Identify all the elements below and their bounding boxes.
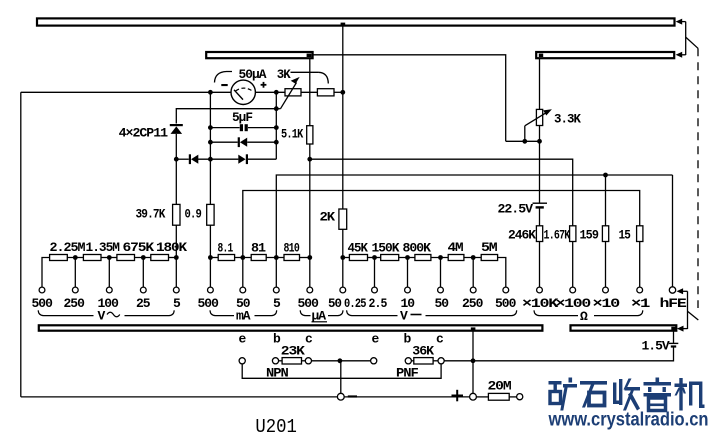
shaft link bottom diagonal: [688, 311, 699, 320]
brace uA: [300, 310, 343, 315]
svg-text:PNF: PNF: [396, 366, 419, 381]
wire: diode branch E left: [176, 158, 189, 160]
wire: diode column x=176: [175, 134, 177, 205]
diode D2 of 4x2CP11 (on 142 wire, cathode left): [238, 137, 248, 147]
terminal 50mA: [240, 287, 246, 293]
svg-text:mA: mA: [236, 309, 251, 324]
terminal 500V: [503, 287, 509, 293]
terminal x10K: [537, 287, 543, 293]
terminal 500V~: [39, 287, 45, 293]
glyph yin: [644, 378, 672, 411]
wire: 159 to x10 terminal: [605, 242, 607, 288]
glyph shou: [613, 379, 640, 411]
node V- row 1: [340, 255, 345, 260]
svg-text:b: b: [273, 332, 281, 347]
terminal x100: [570, 287, 576, 293]
node V~ row 3: [141, 255, 146, 260]
resistor 180K: [151, 255, 169, 261]
wire: V~ 5 terminal drop: [175, 258, 177, 288]
wire: capacitor branch: [210, 127, 239, 129]
wire: meter left column x=210: [209, 92, 211, 204]
node W2 to 159: [603, 173, 608, 178]
wire: 0.9 resistor to mA row: [209, 225, 211, 257]
wire: x=276 column top: [275, 92, 277, 159]
node wiper tail: [274, 106, 279, 111]
node E mid: [208, 157, 213, 162]
node center line / series resistor: [340, 90, 345, 95]
wire: 39.7K to V~ row: [175, 225, 177, 257]
terminal 50V: [438, 287, 444, 293]
node transistor common: [338, 358, 343, 363]
node 3.3K wiper: [522, 139, 527, 144]
svg-text:Ω: Ω: [580, 309, 588, 324]
node mA row 1: [208, 255, 213, 260]
brace V-: [347, 310, 517, 315]
resistor 1.35M: [83, 255, 101, 261]
wire: W1 from 5.1K bottom to 1.67K: [310, 159, 573, 226]
wire: mA terminal drops: [242, 258, 244, 288]
wire: bar S3 tick down to 3.3K top: [539, 59, 541, 110]
wire: meter right terminal to 3K pot: [255, 91, 285, 93]
wire: PNF b stub: [411, 360, 413, 362]
svg-text:15: 15: [619, 228, 632, 243]
wire: NPN e to PNF c bottom link: [242, 364, 441, 378]
capacitor 5uF: [240, 124, 248, 131]
svg-text:159: 159: [580, 228, 600, 243]
svg-text:5µF: 5µF: [232, 110, 253, 125]
node 3.3K bottom: [537, 139, 542, 144]
resistor 39.7K: [173, 204, 180, 225]
wire: W1 node down to mA row: [309, 159, 311, 257]
node meter left: [208, 90, 213, 95]
V- dash: [411, 314, 422, 316]
wire: V~ terminal drops: [74, 258, 76, 288]
wire: V- row to 0.25/50uA terminal: [342, 258, 344, 288]
terminal 2.5V: [372, 287, 378, 293]
svg-text:2.25M: 2.25M: [50, 240, 86, 255]
wire: W3 from mA row 50 to 15 resistor: [243, 191, 640, 258]
wire: 246K to x10K terminal: [539, 242, 541, 288]
wire: bar S1 tick down to main wire node: [342, 26, 344, 93]
node V- row 2: [372, 255, 377, 260]
svg-text:50µA: 50µA: [239, 67, 267, 82]
battery 1.5V: [669, 343, 678, 347]
resistor 810: [284, 255, 300, 261]
node 5.1K bottom: [307, 157, 312, 162]
svg-text:22.5V: 22.5V: [498, 202, 534, 217]
svg-text:500: 500: [32, 296, 54, 311]
shaft link top diagonal: [686, 37, 698, 48]
arrow into bar S1: [676, 19, 686, 55]
svg-text:b: b: [404, 332, 412, 347]
switch wafer bar S3 (upper right bar): [536, 52, 674, 58]
svg-text:0.25: 0.25: [344, 296, 367, 311]
resistor 800K: [415, 255, 431, 261]
socket c NPN: [305, 358, 311, 364]
potentiometer 3.3K (rheostat with arrow): [525, 109, 552, 126]
terminal 10V: [405, 287, 411, 293]
wire: meter line A left segment: [21, 91, 231, 93]
wire: NPN b stub: [279, 360, 283, 362]
svg-text:5: 5: [173, 296, 181, 311]
resistor 150K: [381, 255, 399, 261]
switch wafer bar S4 (bottom left long bar): [39, 325, 543, 330]
minus probe sign: [348, 395, 357, 397]
terminal hFE: [669, 287, 675, 293]
socket e NPN: [239, 358, 245, 364]
svg-text:e: e: [372, 332, 380, 347]
svg-text:150K: 150K: [372, 241, 400, 256]
diode D4 of 4x2CP11 (on 159 wire right, cathode right): [238, 154, 248, 164]
terminal 5mA: [273, 287, 279, 293]
node V- row 4: [438, 255, 443, 260]
terminal plus probe: [470, 393, 477, 400]
terminal 25V~: [140, 287, 146, 293]
svg-text:250: 250: [462, 296, 484, 311]
resistor 20M: [488, 393, 509, 400]
resistor 15: [637, 226, 643, 242]
svg-text:4M: 4M: [448, 240, 464, 255]
meter M (50uA galvanometer): [231, 80, 255, 104]
resistor 246K: [536, 226, 542, 242]
svg-text:V: V: [98, 309, 106, 324]
svg-text:×1: ×1: [631, 296, 651, 311]
switch wafer bar S1 (top long bar): [37, 18, 675, 25]
potentiometer 3K (rheostat with arrow): [281, 77, 302, 109]
wire: W2 down to hFE terminal: [672, 175, 674, 287]
terminal 50uA/0.25V: [340, 287, 346, 293]
svg-text:1.35M: 1.35M: [86, 240, 121, 255]
svg-text:5.1K: 5.1K: [281, 127, 303, 142]
svg-text:1.5V: 1.5V: [642, 339, 670, 354]
svg-text:3.3K: 3.3K: [554, 112, 581, 127]
watermark logo: hand-drawn CJK glyphs (kuang shi shou yin ji): [549, 378, 705, 411]
meter assembly bracket left arc: [215, 72, 233, 83]
wire: 3.3K wiper tail down: [524, 126, 526, 142]
wire: bar S2 tick down to 5.1K: [309, 59, 311, 126]
node mA row 4: [307, 255, 312, 260]
svg-text:500: 500: [198, 296, 220, 311]
svg-text:1.67K: 1.67K: [544, 228, 571, 243]
svg-text:25: 25: [136, 296, 151, 311]
terminal 100V~: [106, 287, 112, 293]
wire: pot wiper tail: [276, 108, 280, 110]
wire: 3K pot to series resistor: [301, 91, 317, 93]
resistor 36K: [414, 358, 433, 364]
svg-text:0.9: 0.9: [185, 207, 202, 222]
resistor 5.1K: [307, 126, 313, 144]
terminal 500uA: [307, 287, 313, 293]
socket b PNF: [405, 358, 411, 364]
svg-text:5: 5: [273, 296, 281, 311]
svg-text:81: 81: [251, 241, 266, 256]
svg-text:4×2CP11: 4×2CP11: [119, 126, 169, 141]
wire: series resistor to center node: [334, 91, 343, 93]
svg-text:45K: 45K: [348, 241, 369, 256]
terminal x10: [603, 287, 609, 293]
wiper contact tick on bar S2: [307, 54, 312, 57]
switch wafer bar S2 (upper middle bar): [206, 52, 312, 58]
wire: 3.3K bottom to battery: [539, 126, 541, 204]
svg-text:675K: 675K: [123, 240, 155, 255]
socket b NPN: [272, 358, 278, 364]
svg-text:www.crystalradio.cn: www.crystalradio.cn: [548, 410, 709, 431]
wiper contact tick on bar S1: [341, 23, 346, 26]
node V~ row 2: [107, 255, 112, 260]
glyph shi: [580, 381, 607, 408]
svg-text:V: V: [400, 309, 408, 324]
wire: 2K bottom to V- row: [342, 229, 344, 257]
svg-text:×10K: ×10K: [522, 296, 559, 311]
switch wafer bar S5 (bottom right bar): [571, 325, 677, 330]
svg-text:800K: 800K: [403, 241, 432, 256]
svg-text:23K: 23K: [281, 344, 305, 359]
diode D3 of 4x2CP11 (on 159 wire left, cathode left): [189, 154, 199, 164]
brace V~: [38, 310, 174, 315]
svg-text:5M: 5M: [481, 240, 498, 255]
wire: between minus and plus probe terminals: [344, 396, 470, 398]
resistor 1.67K: [570, 226, 576, 242]
wire: plus terminal to 20M: [476, 396, 488, 398]
wiper contact tick on bar S3: [539, 54, 543, 57]
meter plus polarity mark: [261, 82, 267, 88]
svg-text:50: 50: [435, 296, 450, 311]
node mA row 3: [274, 255, 279, 260]
node V~ row 4: [174, 255, 179, 260]
svg-text:500: 500: [495, 296, 517, 311]
svg-text:NPN: NPN: [266, 366, 288, 381]
wire: mA row down to uA 500 terminal: [309, 258, 311, 288]
wire: 3.3K bottom junction wire: [506, 140, 540, 142]
node D2 right: [274, 140, 279, 145]
terminal 500mA: [208, 287, 214, 293]
wiper contact tick on bar S4: [471, 327, 476, 331]
node meter right: [274, 90, 279, 95]
node E left: [174, 157, 179, 162]
wire: 5.1K to W1 node: [309, 144, 311, 159]
wire: transistor node down to plus terminal: [472, 361, 474, 394]
arrow into bar S5: [677, 326, 688, 332]
terminal minus probe: [337, 393, 344, 400]
resistor 81: [251, 255, 266, 261]
wire: 15 to x1 terminal: [639, 242, 641, 288]
wire: bottom outer wire: [21, 396, 338, 398]
wire: 159 resistor drop from W2: [605, 175, 607, 226]
resistor (series with meter, unlabeled): [317, 89, 334, 96]
wire: x=276 column lower, W2 start down to mA row: [276, 175, 672, 258]
svg-text:×10: ×10: [593, 296, 621, 311]
wire: mA row 500 terminal drop: [209, 258, 211, 288]
resistor 23K: [282, 358, 301, 364]
meter assembly bracket right arc: [319, 72, 329, 83]
terminal circles: [39, 287, 676, 400]
wire: V- terminal drops: [374, 258, 376, 288]
svg-text:U201: U201: [255, 416, 297, 437]
svg-text:250: 250: [64, 296, 86, 311]
wire: NPN c to PNF e: [312, 360, 371, 362]
wire: minus terminal drop: [340, 361, 342, 394]
terminal 20M end: [517, 394, 523, 400]
V~ tilde wave: [107, 312, 120, 317]
resistor 4M: [448, 255, 464, 261]
uA underline: [312, 321, 328, 323]
wire: V- row: [343, 257, 350, 259]
arrow into bar S3: [676, 52, 686, 58]
brace Ohm: [534, 310, 643, 315]
wire: bar S2 right to 3.3K feed: [312, 55, 506, 142]
wire: battery to 246K: [539, 208, 541, 226]
node cap left: [208, 125, 213, 130]
svg-text:39.7K: 39.7K: [136, 207, 166, 222]
terminal 250V~: [72, 287, 78, 293]
wiper contact tick on bar S5: [671, 327, 675, 330]
svg-text:2.5: 2.5: [369, 296, 388, 311]
range braces: [38, 310, 643, 315]
svg-text:810: 810: [284, 241, 300, 256]
svg-text:8.1: 8.1: [218, 241, 234, 256]
svg-text:180K: 180K: [156, 240, 187, 255]
brace mA: [210, 310, 277, 315]
rotary shaft dashed line: [697, 48, 699, 308]
terminal 5V~: [173, 287, 179, 293]
wire: left wall from meter wire down: [20, 92, 22, 397]
svg-text:e: e: [239, 332, 247, 347]
diode D1 of 4x2CP11 (vertical, cathode up): [170, 124, 183, 134]
svg-text:c: c: [436, 332, 444, 347]
arrow into hFE terminal: [677, 288, 688, 329]
svg-text:3K: 3K: [277, 67, 291, 82]
wire: PNF c to 1.5V battery return: [444, 346, 673, 360]
resistor 5M: [481, 255, 497, 261]
resistor 45K: [349, 255, 367, 261]
socket c PNF: [438, 358, 444, 364]
glyph ji: [675, 378, 705, 411]
node V- row 3: [405, 255, 410, 260]
svg-text:hFE: hFE: [660, 296, 688, 311]
wire: mA row: [210, 257, 218, 259]
meter minus polarity mark: [221, 84, 227, 86]
resistor 8.1: [218, 255, 234, 261]
wire: 20M to end terminal: [509, 396, 516, 398]
node mA row 2: [240, 255, 245, 260]
node V~ row 1: [73, 255, 78, 260]
wire: 1.67K to x100 terminal: [572, 242, 574, 288]
glyph kuang: [549, 378, 578, 411]
resistor 2K: [339, 209, 347, 229]
terminal x1: [637, 287, 643, 293]
svg-text:20M: 20M: [488, 379, 512, 394]
wire: bar S5 tick down to 1.5V battery: [673, 331, 675, 343]
svg-text:c: c: [305, 332, 313, 347]
meter assembly bracket line to 3K: [291, 71, 319, 73]
wire: bar S4 tick down to transistor node: [472, 331, 474, 361]
svg-text:50: 50: [328, 296, 342, 311]
terminal 250V: [470, 287, 476, 293]
resistor 0.9: [207, 204, 214, 225]
svg-text:2K: 2K: [320, 210, 336, 225]
wire: diode branch D2: [210, 141, 237, 143]
wire B: rectifier top wire: [176, 109, 276, 124]
svg-text:36K: 36K: [412, 344, 434, 359]
resistor 159: [602, 226, 608, 242]
resistor 675K: [117, 255, 135, 261]
node plus column: [471, 358, 476, 363]
battery 22.5V: [533, 203, 548, 208]
socket e PNF: [371, 358, 377, 364]
svg-text:246K: 246K: [508, 228, 536, 243]
wire: center line node down to 2K: [342, 92, 344, 209]
node cap right: [274, 125, 279, 130]
wire: V~ row: [42, 258, 50, 288]
node D2 left: [208, 140, 213, 145]
resistor 2.25M: [50, 255, 68, 261]
plus probe sign: [452, 390, 464, 402]
node V- row 5: [471, 255, 476, 260]
